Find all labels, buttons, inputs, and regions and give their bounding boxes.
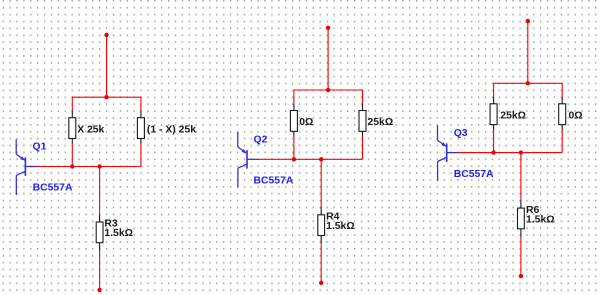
svg-text:25kΩ: 25kΩ	[368, 117, 394, 128]
svg-text:Q1: Q1	[33, 142, 47, 153]
svg-text:0Ω: 0Ω	[299, 117, 313, 128]
svg-text:1.5kΩ: 1.5kΩ	[526, 214, 555, 225]
svg-text:0Ω: 0Ω	[569, 110, 583, 121]
svg-text:BC557A: BC557A	[254, 176, 294, 187]
svg-text:BC557A: BC557A	[454, 169, 494, 180]
svg-text:X 25k: X 25k	[77, 124, 104, 135]
svg-text:1.5kΩ: 1.5kΩ	[326, 221, 355, 232]
svg-text:(1 - X) 25k: (1 - X) 25k	[147, 124, 196, 135]
svg-text:BC557A: BC557A	[33, 183, 73, 194]
svg-text:Q3: Q3	[454, 128, 468, 139]
svg-text:25kΩ: 25kΩ	[500, 110, 526, 121]
svg-text:Q2: Q2	[254, 135, 268, 146]
svg-text:1.5kΩ: 1.5kΩ	[104, 228, 133, 239]
